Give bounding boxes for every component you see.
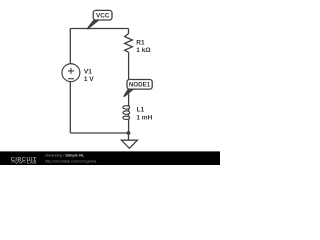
svg-text:1 mH: 1 mH: [136, 114, 152, 121]
wire top horizontal: [70, 28, 128, 30]
junction dot: [127, 131, 131, 135]
resistor R1: [125, 34, 133, 53]
svg-text:1 V: 1 V: [84, 76, 94, 83]
wire between resistor and inductor: [128, 52, 130, 106]
svg-text:1 kΩ: 1 kΩ: [136, 47, 150, 54]
footer bar: [0, 151, 220, 165]
node flag NODE1: [124, 80, 153, 97]
svg-text:R1: R1: [136, 40, 145, 47]
svg-text:L1: L1: [137, 107, 145, 114]
svg-text:LAB: LAB: [27, 160, 37, 165]
wire bottom horizontal: [70, 132, 128, 134]
wire junction to ground: [128, 133, 130, 140]
svg-text:NODE1: NODE1: [129, 82, 151, 89]
net flag VCC: [87, 10, 112, 29]
inductor L1: [123, 104, 130, 121]
ground: [121, 140, 137, 148]
wire right vertical into resistor: [128, 29, 130, 34]
wire left vertical upper: [69, 29, 71, 64]
svg-text:V1: V1: [84, 69, 92, 76]
svg-text:sheandog / Simple RL: sheandog / Simple RL: [45, 153, 85, 158]
svg-text:http://circuitlab.com/cmsg4ma: http://circuitlab.com/cmsg4ma: [45, 159, 97, 164]
wire inductor to junction: [128, 120, 130, 134]
wire left vertical lower: [69, 82, 71, 133]
voltage source V1: [62, 64, 80, 82]
footer logo resistor zigzag: [11, 161, 26, 164]
svg-text:VCC: VCC: [96, 13, 110, 20]
